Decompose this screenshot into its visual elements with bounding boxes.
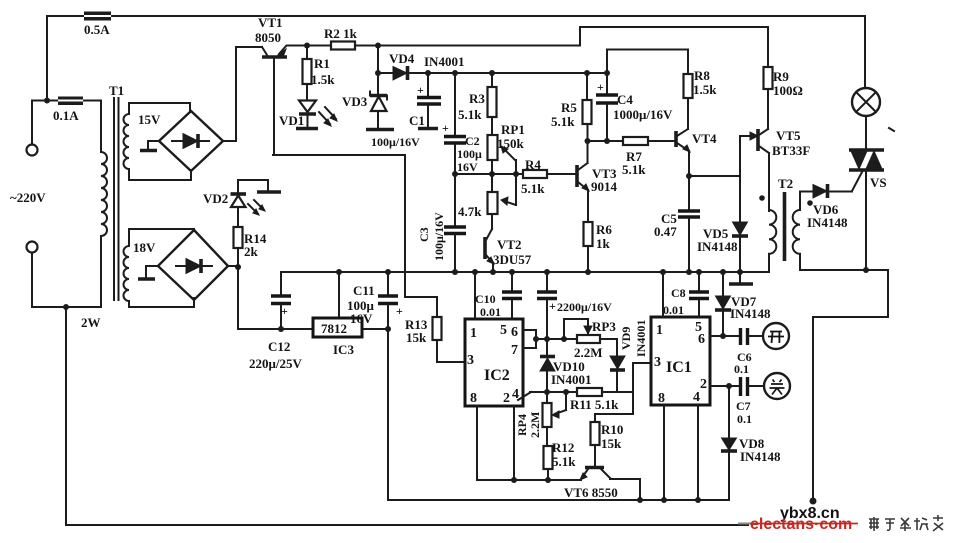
- svg-text:1.5k: 1.5k: [311, 72, 335, 87]
- transformer T1 primary winding: [101, 83, 124, 307]
- diode VD10 IN4001: [540, 339, 591, 392]
- svg-text:0.1: 0.1: [734, 362, 749, 376]
- svg-text:VT1: VT1: [258, 15, 283, 30]
- watermark ybx8.cn: [780, 505, 840, 522]
- wire to VD5/VT5: [689, 132, 758, 176]
- transistor VT3 9014: [547, 163, 618, 222]
- node VD4 anode: [375, 70, 381, 76]
- wire 15V loop: [129, 103, 191, 180]
- svg-text:9014: 9014: [591, 179, 618, 194]
- svg-text:8050: 8050: [255, 30, 281, 45]
- IC1 pin3: [654, 355, 661, 370]
- bridge rectifier 2 (18V): [158, 230, 228, 300]
- VD2 top hook: [238, 180, 281, 192]
- IC2 pin3: [467, 353, 474, 368]
- node junction at 0.1A branch: [44, 98, 50, 104]
- transistor VT6 8550: [564, 445, 643, 503]
- capacitor C4 1000u/16V: [596, 50, 673, 145]
- svg-text:1: 1: [470, 326, 477, 341]
- svg-text:VD3: VD3: [342, 94, 368, 109]
- svg-text:~220V: ~220V: [10, 190, 46, 205]
- svg-text:2k: 2k: [244, 244, 259, 259]
- fuse 0.1A: [47, 97, 101, 124]
- transistor VT4: [676, 129, 717, 176]
- wire mid common rail y272: [281, 271, 769, 273]
- svg-text:15V: 15V: [138, 112, 161, 127]
- potentiometer 4.7k: [458, 174, 516, 229]
- potentiometer RP4 2.2M: [515, 392, 566, 446]
- wire 18V loop: [129, 229, 194, 307]
- capacitor C11 100u/16V: [347, 269, 403, 332]
- wire C4 loop top: [607, 50, 688, 75]
- svg-text:C3: C3: [417, 227, 431, 242]
- svg-text:4: 4: [693, 390, 700, 405]
- capacitor C6 0.1: [734, 328, 763, 376]
- svg-text:1k: 1k: [596, 236, 611, 251]
- IC2 pin6: [511, 325, 518, 340]
- wire left return drop: [388, 329, 729, 500]
- wire supply rail y73: [378, 72, 607, 74]
- svg-text:2.2M: 2.2M: [574, 345, 603, 360]
- wire timing node y339: [536, 336, 617, 342]
- svg-text:4.7k: 4.7k: [458, 204, 482, 219]
- triac VS: [849, 116, 887, 270]
- svg-text:7: 7: [511, 343, 518, 358]
- svg-text:15k: 15k: [406, 330, 427, 345]
- fuse 0.5A: [84, 12, 111, 38]
- svg-text:0.5A: 0.5A: [84, 22, 110, 37]
- transformer T2 primary winding: [769, 176, 793, 272]
- svg-text:C10: C10: [475, 292, 496, 306]
- transformer T1 core: [114, 98, 119, 300]
- potentiometer RP1 150k: [488, 122, 525, 174]
- IC1 pin8 lead: [661, 405, 667, 503]
- diode VD4 IN4001: [389, 51, 464, 80]
- node R7 tap: [585, 138, 591, 144]
- diode VD9 IN4001: [610, 320, 648, 392]
- svg-text:3: 3: [467, 353, 474, 368]
- transformer T2 core: [783, 192, 787, 261]
- svg-text:IN4148: IN4148: [740, 449, 781, 464]
- wiper bus: [513, 160, 519, 205]
- svg-text:IN4148: IN4148: [730, 306, 771, 321]
- svg-text:0.1A: 0.1A: [53, 108, 79, 123]
- svg-text:+: +: [549, 299, 556, 313]
- wire rail B y329: [238, 328, 389, 330]
- svg-text:18V: 18V: [133, 240, 156, 255]
- wire VT1 emitter to R2: [287, 45, 331, 47]
- svg-text:8: 8: [470, 391, 477, 406]
- capacitor C9 2200u/16V: [537, 269, 612, 339]
- switch button ON: [763, 323, 789, 349]
- svg-text:R5: R5: [561, 100, 577, 115]
- svg-text:C1: C1: [409, 113, 425, 128]
- svg-text:IN4001: IN4001: [634, 320, 648, 357]
- svg-text:1: 1: [656, 323, 663, 338]
- diode VD7 IN4148: [715, 269, 771, 339]
- svg-text:T1: T1: [109, 83, 124, 98]
- svg-text:+: +: [417, 83, 424, 97]
- IC1 pin6: [698, 332, 705, 347]
- node R14 bottom junction: [235, 264, 241, 270]
- svg-text:+: +: [396, 304, 403, 318]
- node R1 junction: [304, 43, 310, 49]
- IC2 pin4 stub: [512, 387, 531, 402]
- svg-text:R8: R8: [694, 68, 710, 83]
- wire VD4 feed drop: [375, 43, 381, 74]
- IC1 pin4: [693, 390, 700, 405]
- resistor R6 1k: [584, 222, 613, 275]
- switch button OFF: [764, 373, 790, 399]
- svg-text:electans·com: electans·com: [750, 516, 852, 533]
- svg-text:7812: 7812: [321, 321, 347, 336]
- capacitor C3: [417, 174, 466, 275]
- wire top rail: [47, 16, 865, 88]
- wire R4 node line: [452, 171, 577, 177]
- svg-text:IN4001: IN4001: [551, 372, 591, 387]
- stray mark: [889, 128, 894, 131]
- svg-text:R4: R4: [525, 157, 541, 172]
- svg-text:15k: 15k: [601, 436, 622, 451]
- svg-text:0.47: 0.47: [654, 224, 677, 239]
- potentiometer RP3 2.2M: [564, 319, 616, 360]
- phototransistor VT2 3DU57: [485, 229, 532, 275]
- svg-text:VT5: VT5: [776, 128, 801, 143]
- svg-text:16V: 16V: [457, 160, 478, 174]
- svg-text:IC1: IC1: [666, 359, 692, 376]
- transformer T1 secondary 18V winding: [124, 229, 157, 307]
- transformer T1 secondary 15V winding: [124, 103, 162, 180]
- LED VD2: [203, 180, 246, 227]
- resistor R8 1.5k: [684, 68, 718, 129]
- resistor R5 5.1k: [551, 70, 592, 163]
- svg-text:3DU57: 3DU57: [493, 252, 532, 267]
- regulator IC3 7812: [313, 269, 362, 357]
- bridge 1 common tap: [140, 141, 159, 151]
- watermark electans.com: [738, 516, 858, 533]
- svg-text:IC2: IC2: [484, 367, 510, 384]
- svg-text:5.1k: 5.1k: [458, 107, 482, 122]
- wire R2 to jog and R9: [355, 27, 768, 67]
- wire knot vertical: [595, 363, 651, 414]
- svg-text:100μ/16V: 100μ/16V: [432, 212, 446, 261]
- svg-text:2.2M: 2.2M: [528, 412, 542, 438]
- svg-text:IN4001: IN4001: [424, 54, 464, 69]
- wire VS gate: [852, 172, 862, 191]
- resistor R11 5.1k: [570, 388, 633, 412]
- resistor R12 5.1k: [544, 440, 577, 483]
- svg-text:R11 5.1k: R11 5.1k: [570, 397, 619, 412]
- svg-text:C11: C11: [353, 283, 375, 298]
- svg-text:16V: 16V: [350, 311, 373, 326]
- svg-text:R1: R1: [314, 56, 330, 71]
- resistor R10 15k: [591, 414, 624, 466]
- wire VT1 base chain to optocoupler box: [273, 155, 437, 297]
- resistor R7 5.1k: [588, 137, 677, 177]
- diode VD5 IN4148: [697, 176, 753, 284]
- svg-text:BT33F: BT33F: [772, 143, 810, 158]
- IC1 pin1: [656, 269, 666, 338]
- svg-text:5.1k: 5.1k: [551, 114, 575, 129]
- IC1 pin5: [695, 320, 702, 335]
- svg-text:RP1: RP1: [501, 122, 525, 137]
- svg-text:+: +: [442, 121, 449, 135]
- node 2W junction: [63, 304, 101, 330]
- svg-text:6: 6: [511, 325, 518, 340]
- transistor VT1 8050: [255, 15, 287, 155]
- svg-text:+: +: [597, 80, 604, 94]
- resistor R3 5.1k: [458, 70, 497, 135]
- resistor R13 15k: [405, 297, 465, 362]
- svg-text:VT4: VT4: [692, 131, 717, 146]
- svg-text:C8: C8: [671, 286, 686, 300]
- svg-text:IN4148: IN4148: [697, 239, 738, 254]
- watermark chinese: [869, 515, 943, 531]
- LED VD1: [279, 101, 318, 129]
- IC2 pin7: [511, 343, 518, 358]
- wire IC1 pin2 line: [710, 385, 738, 387]
- svg-text:VD2: VD2: [203, 191, 228, 206]
- IC2 pin5: [500, 323, 507, 338]
- svg-text:R10: R10: [601, 422, 623, 437]
- svg-text:2W: 2W: [81, 315, 101, 330]
- diode VD6 IN4148: [800, 184, 852, 230]
- wire bridge1 output to VT1: [223, 47, 262, 141]
- IC2 box: [465, 319, 523, 406]
- svg-text:R12: R12: [552, 440, 574, 455]
- IC2 pin8: [470, 391, 477, 406]
- IC2 pin2 lead: [511, 406, 517, 483]
- svg-text:VD9: VD9: [619, 327, 633, 350]
- wire IC1 pin6 line: [710, 335, 738, 337]
- IC1 box: [651, 317, 710, 405]
- capacitor C7 0.1: [736, 377, 764, 426]
- bridge rectifier 1 (15V): [159, 111, 223, 171]
- svg-text:150k: 150k: [497, 136, 525, 151]
- wire IC2 bottom rail y480: [477, 406, 581, 480]
- svg-text:3: 3: [654, 355, 661, 370]
- diode VD8 IN4148: [721, 383, 781, 500]
- IC2 pin6-7 bulge: [523, 330, 539, 348]
- svg-text:2200μ/16V: 2200μ/16V: [557, 300, 612, 314]
- svg-text:R3: R3: [469, 91, 485, 106]
- transistor VT5 BT33F: [758, 128, 810, 211]
- wire bridge2 output: [228, 266, 238, 329]
- svg-text:VS: VS: [870, 175, 887, 190]
- IC2 pin2: [503, 391, 510, 406]
- svg-text:VD1: VD1: [279, 113, 304, 128]
- IC1 pin8: [658, 391, 665, 406]
- svg-text:IC3: IC3: [333, 342, 354, 357]
- label ~220V: [10, 190, 46, 205]
- svg-text:RP4: RP4: [515, 414, 529, 436]
- svg-text:100Ω: 100Ω: [773, 83, 803, 98]
- svg-text:6: 6: [698, 332, 705, 347]
- svg-text:C12: C12: [268, 339, 290, 354]
- svg-text:VT2: VT2: [497, 237, 522, 252]
- resistor R14 2k: [234, 227, 267, 266]
- svg-text:8: 8: [658, 391, 665, 406]
- capacitor C8 0.01: [663, 269, 709, 317]
- svg-text:100μ/16V: 100μ/16V: [371, 135, 420, 149]
- IC1 pin2: [700, 377, 707, 392]
- svg-text:220μ/25V: 220μ/25V: [249, 356, 302, 371]
- resistor R9 100ohm: [764, 67, 803, 129]
- wire pin4 node y392: [530, 389, 577, 395]
- svg-text:IN4148: IN4148: [807, 215, 848, 230]
- svg-text:C2: C2: [465, 134, 480, 148]
- svg-text:100μ: 100μ: [457, 147, 482, 161]
- svg-text:T2: T2: [778, 176, 793, 191]
- VD1 emission arrows: [319, 107, 337, 126]
- bridge 2 common tap: [138, 266, 158, 279]
- svg-text:R6: R6: [596, 222, 612, 237]
- transformer T2 secondary winding: [793, 192, 800, 271]
- svg-text:0.01: 0.01: [480, 305, 501, 319]
- zener VD3: [342, 73, 394, 130]
- node VT4 emitter junction: [686, 173, 692, 179]
- capacitor C2: [442, 70, 482, 174]
- svg-text:5.1k: 5.1k: [521, 181, 545, 196]
- capacitor C12 220u/25V: [249, 272, 302, 371]
- svg-text:C4: C4: [617, 92, 633, 107]
- lamp: [852, 88, 880, 116]
- capacitor C5 0.47: [654, 176, 700, 275]
- svg-text:+: +: [281, 304, 288, 318]
- resistor R1 1.5k: [303, 46, 336, 101]
- svg-text:VT6 8550: VT6 8550: [564, 485, 618, 500]
- svg-text:RP3: RP3: [592, 319, 616, 334]
- svg-text:5.1k: 5.1k: [552, 454, 576, 469]
- svg-text:5.1k: 5.1k: [622, 162, 646, 177]
- svg-text:2: 2: [700, 377, 707, 392]
- resistor R4 5.1k: [521, 157, 547, 196]
- IC2 pin1: [470, 269, 478, 341]
- wire bottom-left long drop: [66, 307, 748, 525]
- wire left drop: [46, 16, 48, 101]
- T2 phase dot left: [759, 195, 765, 201]
- svg-text:VD4: VD4: [389, 51, 415, 66]
- svg-text:1000μ/16V: 1000μ/16V: [613, 107, 673, 122]
- VD2 emission arrows: [248, 200, 265, 215]
- wire from bottom terminal: [32, 253, 101, 307]
- svg-text:0.01: 0.01: [663, 303, 684, 317]
- terminal circle top: [27, 145, 38, 156]
- IC1 pin4 lead: [695, 405, 701, 503]
- svg-text:5: 5: [500, 323, 507, 338]
- svg-text:0.1: 0.1: [737, 412, 752, 426]
- svg-text:R9: R9: [773, 69, 789, 84]
- capacitor C10 0.01: [475, 269, 522, 319]
- resistor R2 1k: [324, 26, 358, 50]
- svg-text:2: 2: [503, 391, 510, 406]
- svg-text:C7: C7: [736, 399, 751, 413]
- capacitor C1: [371, 70, 441, 149]
- svg-text:R2 1k: R2 1k: [324, 26, 358, 41]
- terminal circle bottom: [27, 242, 38, 253]
- svg-text:1.5k: 1.5k: [693, 82, 717, 97]
- wire to terminal 1: [32, 101, 47, 145]
- wire T2 secondary bottom loop: [800, 267, 888, 505]
- T2 phase dot right: [807, 200, 813, 206]
